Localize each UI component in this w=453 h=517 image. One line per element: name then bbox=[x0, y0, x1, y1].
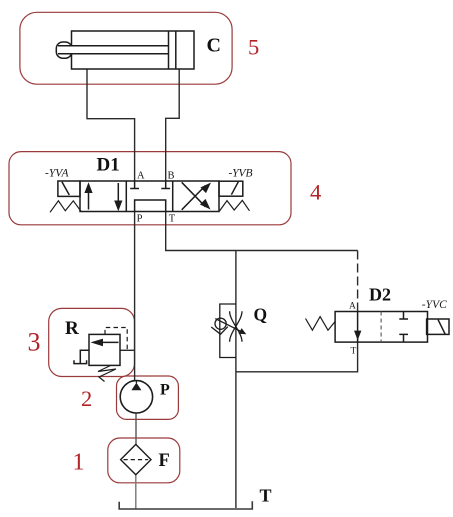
svg-text:5: 5 bbox=[248, 34, 259, 59]
svg-text:B: B bbox=[168, 171, 175, 182]
svg-text:1: 1 bbox=[73, 450, 85, 476]
svg-text:2: 2 bbox=[81, 386, 92, 411]
svg-text:4: 4 bbox=[310, 180, 321, 205]
svg-text:T: T bbox=[351, 347, 357, 357]
svg-text:C: C bbox=[207, 35, 221, 57]
svg-text:P: P bbox=[160, 382, 170, 399]
svg-text:P: P bbox=[137, 214, 143, 225]
svg-text:R: R bbox=[65, 318, 79, 339]
svg-text:-YVB: -YVB bbox=[229, 168, 253, 180]
svg-text:Q: Q bbox=[254, 305, 268, 325]
svg-text:3: 3 bbox=[28, 328, 41, 357]
svg-text:A: A bbox=[137, 171, 145, 182]
svg-text:T: T bbox=[260, 486, 272, 506]
svg-text:F: F bbox=[159, 451, 170, 471]
svg-text:A: A bbox=[349, 302, 356, 312]
svg-text:-YVC: -YVC bbox=[422, 299, 447, 311]
svg-text:D1: D1 bbox=[97, 155, 120, 176]
svg-text:T: T bbox=[169, 214, 176, 225]
svg-text:D2: D2 bbox=[369, 285, 391, 305]
svg-text:-YVA: -YVA bbox=[45, 168, 69, 180]
